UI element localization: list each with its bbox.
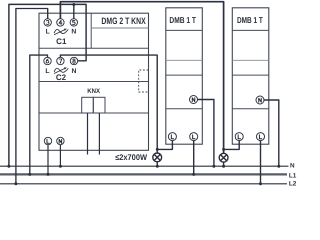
junction dot lamp2 top xyxy=(222,148,225,151)
KNX bus terminal block xyxy=(82,97,105,113)
KNX bus wire 2 xyxy=(98,113,100,155)
svg-text:L: L xyxy=(45,68,49,75)
DMB1 divider 3 xyxy=(166,74,203,76)
svg-text:L2: L2 xyxy=(289,181,297,188)
terminal L of DMG xyxy=(44,137,51,144)
terminal L out of DMB2 xyxy=(257,133,265,141)
terminal 5 xyxy=(70,19,77,26)
DMB2 divider 3 xyxy=(232,74,268,76)
svg-text:L: L xyxy=(46,29,50,36)
bus N line xyxy=(0,165,289,167)
terminal N of DMG xyxy=(57,137,64,144)
dimmer phase symbol C1 xyxy=(54,29,68,35)
junction dot L2 bus x15.9 xyxy=(14,182,17,185)
wire lamp2 to bus N xyxy=(223,162,225,166)
DMB2 divider 4 xyxy=(232,108,268,110)
DMB1 divider 2 xyxy=(166,59,203,61)
svg-text:C1: C1 xyxy=(56,37,67,46)
module DMB 1 T first outline xyxy=(166,8,203,144)
junction dot N bus x8.9 xyxy=(7,165,10,168)
wire DMG N terminal to bus N xyxy=(59,145,61,167)
svg-text:DMB 1 T: DMB 1 T xyxy=(169,15,196,25)
divider below C1 section xyxy=(39,47,149,49)
lamp 1 xyxy=(153,153,162,162)
bus L1 line xyxy=(0,173,287,175)
terminal N of DMB1 xyxy=(190,96,198,104)
terminal 7 xyxy=(57,57,64,64)
wire DMB2 L in to lamp2 node xyxy=(224,141,239,150)
junction dot L1 bus x29.8 xyxy=(28,173,31,176)
svg-text:N: N xyxy=(72,68,77,75)
wire DMB1 L in to lamp1 node xyxy=(158,141,172,150)
svg-text:DMB 1 T: DMB 1 T xyxy=(237,15,263,25)
KNX bus wire 1 xyxy=(87,113,89,155)
module DMB 1 T second outline xyxy=(232,8,268,144)
wire output C2 (terminal 7 to lamp 1) xyxy=(60,55,157,153)
terminal L out of DMB1 xyxy=(190,133,198,141)
junction dot lamp1 top xyxy=(156,148,159,151)
junction dot DMG N on N xyxy=(59,165,62,168)
terminal 6 xyxy=(44,57,51,64)
divider below C2 section xyxy=(39,81,149,83)
junction dot DMB1 Lout on L1 xyxy=(192,173,195,176)
junction dot lamp1 on N xyxy=(156,165,159,168)
junction dot lamp2 on N xyxy=(222,165,225,168)
label compartment DMG xyxy=(90,13,92,48)
svg-text:N: N xyxy=(290,162,295,169)
junction dot DMG L on L1 xyxy=(47,173,50,176)
terminal 8 xyxy=(70,57,77,64)
junction dot DMB1 N on N xyxy=(212,165,215,168)
wire L1 feed to terminal 6 xyxy=(30,55,48,174)
wire DMB2 N to bus N xyxy=(264,100,279,166)
svg-text:N: N xyxy=(71,29,76,36)
divider below KNX section xyxy=(39,112,149,114)
junction dot DMB2 N on N xyxy=(277,165,280,168)
dimmer phase symbol C2 xyxy=(54,67,68,73)
svg-text:DMG 2 T KNX: DMG 2 T KNX xyxy=(101,16,146,26)
wire DMB1 N to bus N xyxy=(198,100,214,167)
wire lamp1 to bus N xyxy=(156,162,158,166)
bus L2 line xyxy=(0,183,287,185)
dashed side-connector box xyxy=(139,70,149,92)
terminal 3 xyxy=(44,19,51,26)
wire output C1 (terminal 4 to lamp 2) xyxy=(60,2,223,154)
DMB2 divider 1 xyxy=(232,29,268,31)
wire stub into terminal 5 xyxy=(73,4,75,18)
wire DMG L terminal to bus L1 xyxy=(47,145,49,175)
junction dot DMB2 Lout on L2 xyxy=(259,182,262,185)
DMB2 divider 2 xyxy=(232,59,268,61)
terminal L in of DMB1 xyxy=(168,133,176,141)
terminal N of DMB2 xyxy=(256,96,264,104)
wire DMB2 L out to bus L2 xyxy=(260,141,262,184)
wire DMB1 L out to bus L1 xyxy=(193,141,195,175)
svg-text:L1: L1 xyxy=(289,173,297,180)
DMB1 divider 1 xyxy=(166,29,203,31)
module DMG 2 T KNX outline xyxy=(39,13,149,150)
lamp 2 xyxy=(219,153,228,162)
terminal L in of DMB2 xyxy=(235,133,243,141)
svg-text:C2: C2 xyxy=(56,73,67,82)
wire N feed (bus N to terminals 5 and 8) xyxy=(9,4,86,166)
wire L2 feed to terminal 3 xyxy=(16,9,48,184)
svg-text:≤2x700W: ≤2x700W xyxy=(115,153,147,162)
terminal 4 xyxy=(57,19,64,26)
svg-text:KNX: KNX xyxy=(87,88,100,95)
junction dot above terminal 5 xyxy=(72,3,75,6)
DMB1 divider 4 xyxy=(166,108,203,110)
